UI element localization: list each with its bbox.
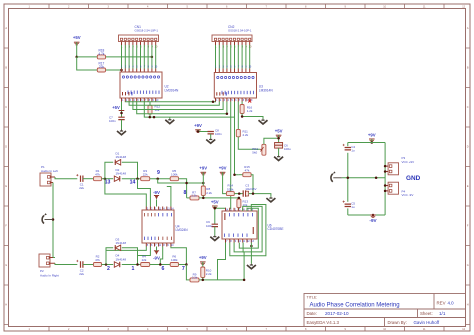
ground under C8 [210,138,212,139]
resistor R15 47k [239,174,243,176]
svg-text:22u: 22u [79,186,84,190]
svg-text:22u: 22u [79,272,84,276]
capacitor C3 10u/16V [243,190,245,196]
P1 pin stubs [50,177,55,183]
power flag -9V supply [370,214,376,216]
U3 interior pin names bottom [221,91,224,94]
wire PR1 top to +5V node [264,138,279,144]
svg-text:D: D [5,146,7,149]
wire run2 U2 pin3 to U3 [129,102,219,106]
wire R6 to net7 [179,264,187,266]
svg-text:Sheet:: Sheet: [420,311,433,316]
resistor R1 47k [94,177,102,181]
svg-text:-9V: -9V [153,190,160,195]
U2 interior pin names top [122,76,124,78]
svg-text:H: H [5,304,7,307]
svg-text:2: 2 [107,266,110,272]
svg-text:47k: 47k [245,168,250,172]
svg-text:7: 7 [182,266,185,272]
U4 interior pin names top [143,213,146,216]
wire D1 to right vertical [122,162,138,178]
wire R4 to net6 [150,264,171,266]
svg-text:100k: 100k [171,172,178,176]
diode D1 1N4148 [115,160,120,165]
svg-text:22k: 22k [143,172,148,176]
svg-text:2.2k: 2.2k [191,194,197,198]
svg-text:REV: REV [437,301,446,306]
wire U6 left bottom loop [218,243,226,280]
resistor R17 [97,68,105,72]
svg-text:9: 9 [157,170,160,176]
wire R17 row [77,57,98,70]
capacitor C5 1u polarized [345,204,351,206]
connector CN1 [119,35,159,42]
wire R7 row [187,197,190,199]
wire R15 to C3 row [251,175,253,194]
U6 top pin stubs [225,208,227,211]
svg-text:Drawn By:: Drawn By: [388,320,407,325]
resistor R16 1.2k [241,102,243,105]
svg-text:1/1: 1/1 [439,311,446,316]
node P3 pin junctions [384,165,387,168]
node bottom rail junction [372,214,375,217]
U3 bottom pin stubs [215,98,217,102]
wire run5 R12 to U3 side [144,102,234,118]
wire D3 to right vertical [122,248,138,265]
ground right of C3 [270,197,272,198]
wire supply left rail [347,143,349,147]
node R16 junction [241,115,244,118]
svg-text:22k: 22k [99,65,105,69]
node net14 junction [136,177,139,180]
resistor R10 2.2k vertical [201,267,205,278]
power flag +9V above R14 row [220,171,226,173]
wire R9/R10 junction to U6 loop [199,243,244,280]
power flag +9V above R8 [201,171,207,173]
node net9 junction [156,177,159,180]
node net1 junction [136,263,139,266]
wire P2 to C2 [55,263,77,264]
resistor R14 520k [226,192,234,196]
wire D-loop left vertical [105,162,113,178]
node R7/R8 junction [202,197,205,200]
power flag +9V above C8 [195,129,201,131]
wire U6 right loop 2 [234,206,262,252]
node junction +5V/R18 [75,56,78,59]
wire U4 feedback right [167,187,171,207]
ground under C9 [214,236,216,237]
wire U6 ground stem [250,243,252,264]
svg-text:+9V: +9V [219,166,227,171]
CN1 pin stubs [121,42,123,46]
svg-text:8: 8 [184,190,187,196]
wire run4 U2 pin5 to U3 [137,102,227,114]
wire run1 U2 pin2 to U3 [125,101,215,103]
diode D2 1N4148 [114,176,119,181]
potentiometer PR1 5k0 [262,144,266,155]
resistor R13 10k vertical [237,199,241,208]
wire run3 U2 pin4 to U3 [133,102,223,110]
resistor R7 2.2k [190,196,199,200]
svg-text:4.0: 4.0 [448,301,455,306]
svg-text:2.2k: 2.2k [206,191,212,195]
resistor R3 22k [141,177,150,181]
wire net1 to U4 bottom pin [138,247,151,265]
wire U4 out to net7 chain [171,247,187,265]
svg-text:6: 6 [162,266,165,272]
wire +5V stem to C6 [278,135,280,142]
svg-text:Date:: Date: [307,311,318,316]
svg-text:Audio Phase Correlation Meteri: Audio Phase Correlation Metering [310,302,400,308]
svg-text:GND: GND [406,175,421,182]
wire net2 to U4 bottom pin [106,247,146,265]
svg-text:+9V: +9V [194,123,202,128]
svg-text:-9V: -9V [369,218,377,223]
svg-text:1u: 1u [351,149,355,153]
wire R13 to U6 top pin [237,208,240,211]
node net7 junction [185,263,188,266]
svg-text:G: G [467,264,469,267]
node R14/C3 junction [238,192,241,195]
resistor R6 100k [170,263,178,267]
svg-text:C: C [467,106,469,109]
svg-text:100n: 100n [109,119,116,123]
no-connect X on U3 pin9 [248,100,251,103]
node C8 junction [197,130,200,133]
wire V2 U3 to R15 row [235,102,239,175]
svg-text:4.7k: 4.7k [98,52,104,56]
ground under U6 [250,264,252,265]
capacitor C8 100n [208,132,214,134]
title block [304,294,466,327]
svg-text:+9V: +9V [368,132,376,137]
node branch dots [185,182,188,185]
wire ground chain P1 to P2 [53,183,55,258]
ground under R16 [262,119,264,120]
wire +5V stem [76,42,78,57]
wire R14 to C3 [234,193,243,195]
svg-text:2.2k: 2.2k [206,272,212,276]
capacitor C2 22u [81,261,83,267]
capacitor C6 100u polarized [275,143,283,149]
wire R2 to net2 [102,264,114,266]
wire C7 to ground [121,120,123,130]
wire net6 to U4 bottom pin [160,247,162,265]
P2 pin stubs [49,258,55,264]
wire C1 to R1 [83,178,94,180]
U6 interior VSS pin name [253,227,254,234]
svg-text:CD4070BE: CD4070BE [268,227,284,231]
earth symbol supply [333,177,342,179]
resistor R5 100k [170,177,178,181]
wire R18 row [77,56,98,58]
svg-text:C: C [5,106,7,109]
svg-text:H: H [467,304,469,307]
power flag +5V under U2 [119,110,125,112]
svg-text:EasyEDA V4.1.3: EasyEDA V4.1.3 [307,320,340,325]
wire net13 to U4 pin [105,179,146,207]
svg-text:2.2k: 2.2k [243,133,249,137]
capacitor C9 100n [212,224,218,226]
CN2 pin stubs [215,42,217,46]
svg-text:+9V: +9V [199,166,207,171]
node earth junction [52,218,55,221]
svg-text:LM324N: LM324N [176,228,189,232]
wire +5V to VDD and C9 [214,206,216,224]
wire +9V to C8 [198,130,211,132]
wire bundle CN2 to U3 [215,45,217,69]
svg-text:100n: 100n [206,224,213,228]
connector P3 [388,163,398,175]
U6 bottom pin stubs [225,239,227,243]
power flag +5V top-left [74,41,80,43]
node junction R17/bundle [120,69,123,72]
power flag +9V above R10 [200,261,206,263]
svg-text:1N4148: 1N4148 [116,241,127,245]
wire supply top rail [348,142,385,144]
node net2 junction [105,263,108,266]
P3 pin stubs [385,166,388,171]
capacitor C4 1u polarized [345,148,351,150]
U2 interior pin names bottom [127,91,130,94]
svg-text:1.2k: 1.2k [247,109,253,113]
svg-text:+5V: +5V [275,128,283,133]
svg-text:VCC +9V: VCC +9V [402,160,415,164]
wire supply bottom rail [348,214,385,216]
wire C2 to R2 [83,264,94,266]
wire R11 to PR1 [238,137,260,150]
resistor R18 [97,55,105,59]
svg-text:+5V: +5V [112,105,120,110]
diode D4 1N4148 [114,262,119,267]
U4 bottom pin stubs [145,243,147,247]
svg-text:47k: 47k [95,172,100,176]
U6 interior VDD pin name [224,213,225,220]
svg-text:TITLE:: TITLE: [307,296,318,300]
svg-text:100n: 100n [215,132,222,136]
svg-text:+9V: +9V [199,255,207,260]
svg-text:100k: 100k [171,258,178,262]
wire +9V to R8 [202,172,204,186]
svg-text:1N4148: 1N4148 [116,155,127,159]
wire V1 U3 to U6 top [229,102,232,212]
power flag +5V above U6/C9 [212,205,218,207]
wire net7 down to R9 row [186,265,190,280]
svg-text:G: G [5,264,7,267]
node V2/R15 junction [233,173,236,176]
wire supply right rail [384,143,386,216]
svg-text:1N4148: 1N4148 [116,257,127,261]
wire C9 to ground [214,227,216,236]
svg-text:+5V: +5V [73,35,81,40]
wire U6 right loop 1 [239,208,258,248]
svg-text:LM3914N: LM3914N [259,88,274,92]
wire U2 pin1 to C7 [121,102,123,118]
ground under C7 [121,130,123,132]
svg-text:10k: 10k [155,108,160,112]
resistor R8 2.2k vertical [201,186,205,196]
U2 bottom pin stubs [121,98,123,102]
svg-text:Audio In Left: Audio In Left [41,169,58,173]
capacitor C7 100n [118,117,124,119]
U6 interior pin names bottom [223,234,226,237]
wire D4 to net1 [122,264,141,266]
diode D3 1N4148 [115,245,120,250]
resistor R11 2.2k [237,102,239,130]
connector P2 [39,254,50,267]
svg-text:100u: 100u [284,147,291,151]
svg-text:520k: 520k [227,187,234,191]
wire supply mid rail [342,177,385,179]
U6 interior pin names top [228,213,231,216]
node mid rail junctions [347,177,350,180]
svg-text:2017-02-10: 2017-02-10 [325,311,349,316]
wire R8 bottom junction to R13 [199,197,239,199]
svg-text:2.2k: 2.2k [192,276,198,280]
svg-text:Audio In Right: Audio In Right [40,273,59,277]
svg-text:-9V: -9V [153,255,160,260]
svg-text:D: D [467,146,469,149]
wire +9V to R10 [202,262,204,267]
node +5V/C6 junction [277,137,280,140]
op-amp U2 LM3914N body [120,72,162,98]
ground mid under U2/U3 runs [169,117,171,119]
resistor R12 under U2 [149,102,151,106]
wire P1 to C1 [55,177,77,179]
wire D-loop lower left vertical [106,248,113,265]
node +9V rail junction [371,141,374,144]
wire +9V stem to R14 row [223,172,227,193]
svg-text:13: 13 [105,179,111,185]
wire -9V stem to U4 [156,200,158,207]
U2 top pin stubs [121,69,123,73]
svg-text:VCC -9V: VCC -9V [402,193,414,197]
wire net14 to U4 pin [138,179,151,207]
node net6 junction [159,263,162,266]
node C3/R15 junction [252,192,255,195]
svg-text:5k0: 5k0 [252,150,257,154]
power flag -9V below U4 [154,250,159,252]
P4 pin stubs [385,186,388,191]
wire U6 right loop 3 [230,205,266,256]
power flag +5V above C6 [276,134,282,136]
U4 interior pin names bottom [143,237,146,240]
wire R5 to vertical [179,179,187,198]
svg-text:22k: 22k [142,258,147,262]
node U2 pin1 junction [120,112,123,115]
svg-text:47k: 47k [95,258,100,262]
svg-text:10u/16V: 10u/16V [245,187,256,191]
svg-text:GS018-2.54-10P-1: GS018-2.54-10P-1 [135,29,159,33]
resistor R4 22k [141,263,150,267]
connector P1 [40,173,51,186]
node U6 loop junction [243,279,246,282]
resistor R2 47k [94,263,102,267]
svg-text:LM3914N: LM3914N [165,88,180,92]
node run5 dots [149,116,152,119]
svg-text:GS018-2.54-10P-1: GS018-2.54-10P-1 [228,29,252,33]
wire R3 to net9 [150,178,171,180]
node net13 junction [104,177,107,180]
connector CN2 [212,35,252,42]
wire C3 to ground branch [249,194,271,197]
wire D2 to net14 [122,178,141,180]
wire C6 to ground [278,148,280,155]
wire +9V stem [371,139,373,143]
op-amp U4 LM324N body [142,210,174,243]
transistor U6 CD4070BE body [222,211,257,239]
op-amp U3 LM3914N body [214,73,256,99]
wire net9 branch to R8 top run [158,179,204,183]
resistor R9 2.2k [190,278,199,282]
wire -9V stem below U4 [156,247,158,251]
svg-text:1: 1 [132,266,135,272]
node P4 pin junctions [384,184,387,187]
node R9/R10 junction [202,279,205,282]
earth symbol left [45,219,54,221]
svg-text:+5V: +5V [211,199,219,204]
U3 top pin stubs [215,69,217,73]
connector P4 [388,182,398,194]
node R13 top junction [238,197,241,200]
U4 top pin stubs [145,207,147,211]
node run4 junction [226,112,229,115]
svg-text:Gavin Huhoff: Gavin Huhoff [414,320,440,325]
svg-text:1u: 1u [351,205,355,209]
power flag +9V supply [369,138,375,140]
svg-text:1N4148: 1N4148 [116,172,127,176]
capacitor C1 22u [81,176,83,182]
wire bundle CN1 to U2 [121,45,123,69]
node +5V junction [214,207,217,210]
node junction R18/bundle [151,56,154,59]
svg-text:14: 14 [130,179,136,185]
U3 interior pin names top [217,76,219,78]
node run1 junction [212,100,215,103]
wire R1 to net13 [102,178,114,180]
ground under C6 [278,156,280,157]
